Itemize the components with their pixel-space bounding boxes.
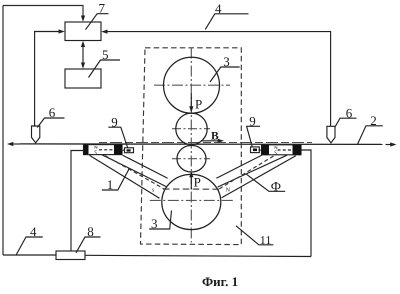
wire: bottom line from left vertical to block 8 <box>3 254 56 256</box>
magnet bar right black pole 1 <box>262 145 270 155</box>
centerline upper work roll <box>172 128 210 130</box>
leader line label 9 right <box>247 126 260 146</box>
magnet core right top edge line <box>216 155 261 178</box>
svg-text:3: 3 <box>151 216 158 231</box>
magnet core 1 left dashed axis <box>105 156 165 190</box>
leader line label 6 left <box>37 118 64 128</box>
svg-text:P: P <box>195 97 202 112</box>
magnet bar left dashed centerline <box>99 149 114 151</box>
centerline vertical (rolls axis) <box>190 48 192 243</box>
svg-text:1: 1 <box>107 177 114 192</box>
svg-text:9: 9 <box>249 114 256 129</box>
leader line label 3 top <box>210 67 240 82</box>
wire: left vertical line 4 <box>2 6 4 256</box>
svg-text:Ф: Ф <box>271 179 281 194</box>
leader line label 9 left <box>108 127 127 147</box>
svg-text:В: В <box>211 130 219 142</box>
leader line label 2 <box>358 126 383 144</box>
block 7 (controller) <box>65 22 101 41</box>
dashed stand box 11 <box>141 48 242 245</box>
upper work roll <box>176 113 207 144</box>
leader line label 7 <box>86 14 109 30</box>
wire: bottom line from block 8 to right vertical <box>85 255 311 256</box>
svg-text:3: 3 <box>223 54 230 69</box>
svg-text:4: 4 <box>215 1 222 16</box>
wire: top feedback line from left vertical to block 7 <box>3 6 83 20</box>
leader line label 1 <box>102 169 129 190</box>
svg-text:5: 5 <box>102 47 109 62</box>
lower work roll <box>177 145 206 172</box>
svg-text:Фиг. 1: Фиг. 1 <box>202 274 238 289</box>
svg-text:N: N <box>226 188 231 194</box>
strip line 2 (pass line with end arrows) <box>20 143 383 146</box>
roll 3 top backup (large circle) <box>164 57 220 113</box>
wire: left magnet bar to block 8 <box>71 151 84 252</box>
magnet bar left black pole 1 <box>84 145 89 155</box>
dash-dot pass axis overlay <box>99 142 312 144</box>
magnet bar left (outline) <box>84 145 123 155</box>
magnet bar right dashed centerline <box>278 149 293 151</box>
force arrow P top <box>190 94 192 111</box>
svg-text:6: 6 <box>346 105 353 120</box>
block 5 <box>65 69 101 88</box>
wire 4: from right sensor 6 up and left into block 7 <box>104 32 331 126</box>
svg-text:6: 6 <box>49 105 56 120</box>
hall sensor 9 left box <box>125 148 134 153</box>
svg-text:P: P <box>194 175 201 190</box>
magnet core right lower edge line <box>222 156 296 198</box>
svg-text:8: 8 <box>87 224 94 239</box>
leader line label 4 top <box>205 14 248 30</box>
magnet core right dashed axis <box>219 156 274 189</box>
flux dashed line through bottom roll <box>163 188 220 190</box>
magnet core right middle edge line <box>218 155 287 187</box>
svg-text:2: 2 <box>370 113 377 128</box>
magnet core 1 left lower edge line <box>90 155 160 198</box>
sensor 6 left (pentagon probe) <box>32 126 40 143</box>
magnet bar right black pole 2 <box>293 145 302 155</box>
leader line label 5 <box>89 60 121 78</box>
wire: from left sensor 6 up into block 7 left input <box>35 32 63 127</box>
block 8 (power source) <box>56 251 85 260</box>
svg-text:7: 7 <box>99 1 106 16</box>
centerline roll 3 bottom <box>150 199 235 201</box>
wire: right vertical from bottom line up to right magnet bar <box>302 150 312 257</box>
force arrow P bottom <box>190 174 192 190</box>
pole labels on right bar <box>275 146 277 154</box>
leader line label Phi <box>246 174 285 191</box>
roll 3 bottom backup (large circle) <box>162 174 221 229</box>
leader line label 4 bottom <box>16 237 43 255</box>
svg-text:11: 11 <box>260 233 272 247</box>
sensor 6 right (pentagon probe) <box>327 126 335 143</box>
leader line label 6 right <box>335 118 357 127</box>
hall sensor 9 right box <box>251 147 260 153</box>
svg-text:9: 9 <box>111 114 118 129</box>
velocity arrow B <box>201 140 222 142</box>
leader line label 8 <box>76 237 101 253</box>
leader line label 11 <box>236 226 273 245</box>
pole labels on left bar <box>95 146 97 154</box>
centerline roll 3 top <box>154 84 230 86</box>
leader line label 3 bottom <box>149 211 171 230</box>
magnet core 1 left top edge line <box>123 155 168 178</box>
wire: double arrow between block 7 and block 5 <box>82 43 84 66</box>
magnet bar right (outline) <box>262 145 302 155</box>
svg-text:4: 4 <box>30 224 37 239</box>
svg-text:s: s <box>152 188 155 194</box>
centerline lower work roll <box>172 158 210 160</box>
magnet bar left black pole 2 <box>114 145 122 155</box>
magnet core 1 left middle edge line <box>102 155 166 187</box>
